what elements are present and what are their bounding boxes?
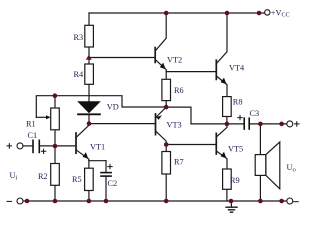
svg-text:C2: C2: [108, 179, 118, 188]
svg-text:R5: R5: [72, 175, 82, 184]
svg-text:R9: R9: [230, 176, 240, 185]
svg-text:VT2: VT2: [167, 55, 182, 64]
svg-text:R2: R2: [38, 172, 48, 181]
svg-text:VT4: VT4: [229, 63, 245, 72]
svg-text:R6: R6: [174, 86, 184, 95]
svg-text:C1: C1: [28, 131, 38, 140]
svg-text:R7: R7: [174, 157, 184, 166]
svg-text:R1: R1: [26, 120, 36, 129]
svg-text:R4: R4: [74, 70, 85, 79]
svg-text:VT1: VT1: [90, 143, 105, 152]
svg-text:R8: R8: [233, 97, 243, 106]
svg-text:C3: C3: [250, 109, 260, 118]
svg-text:VT3: VT3: [167, 120, 182, 129]
svg-text:VD: VD: [107, 103, 119, 112]
svg-text:VT5: VT5: [228, 144, 243, 153]
svg-text:R3: R3: [74, 33, 84, 42]
